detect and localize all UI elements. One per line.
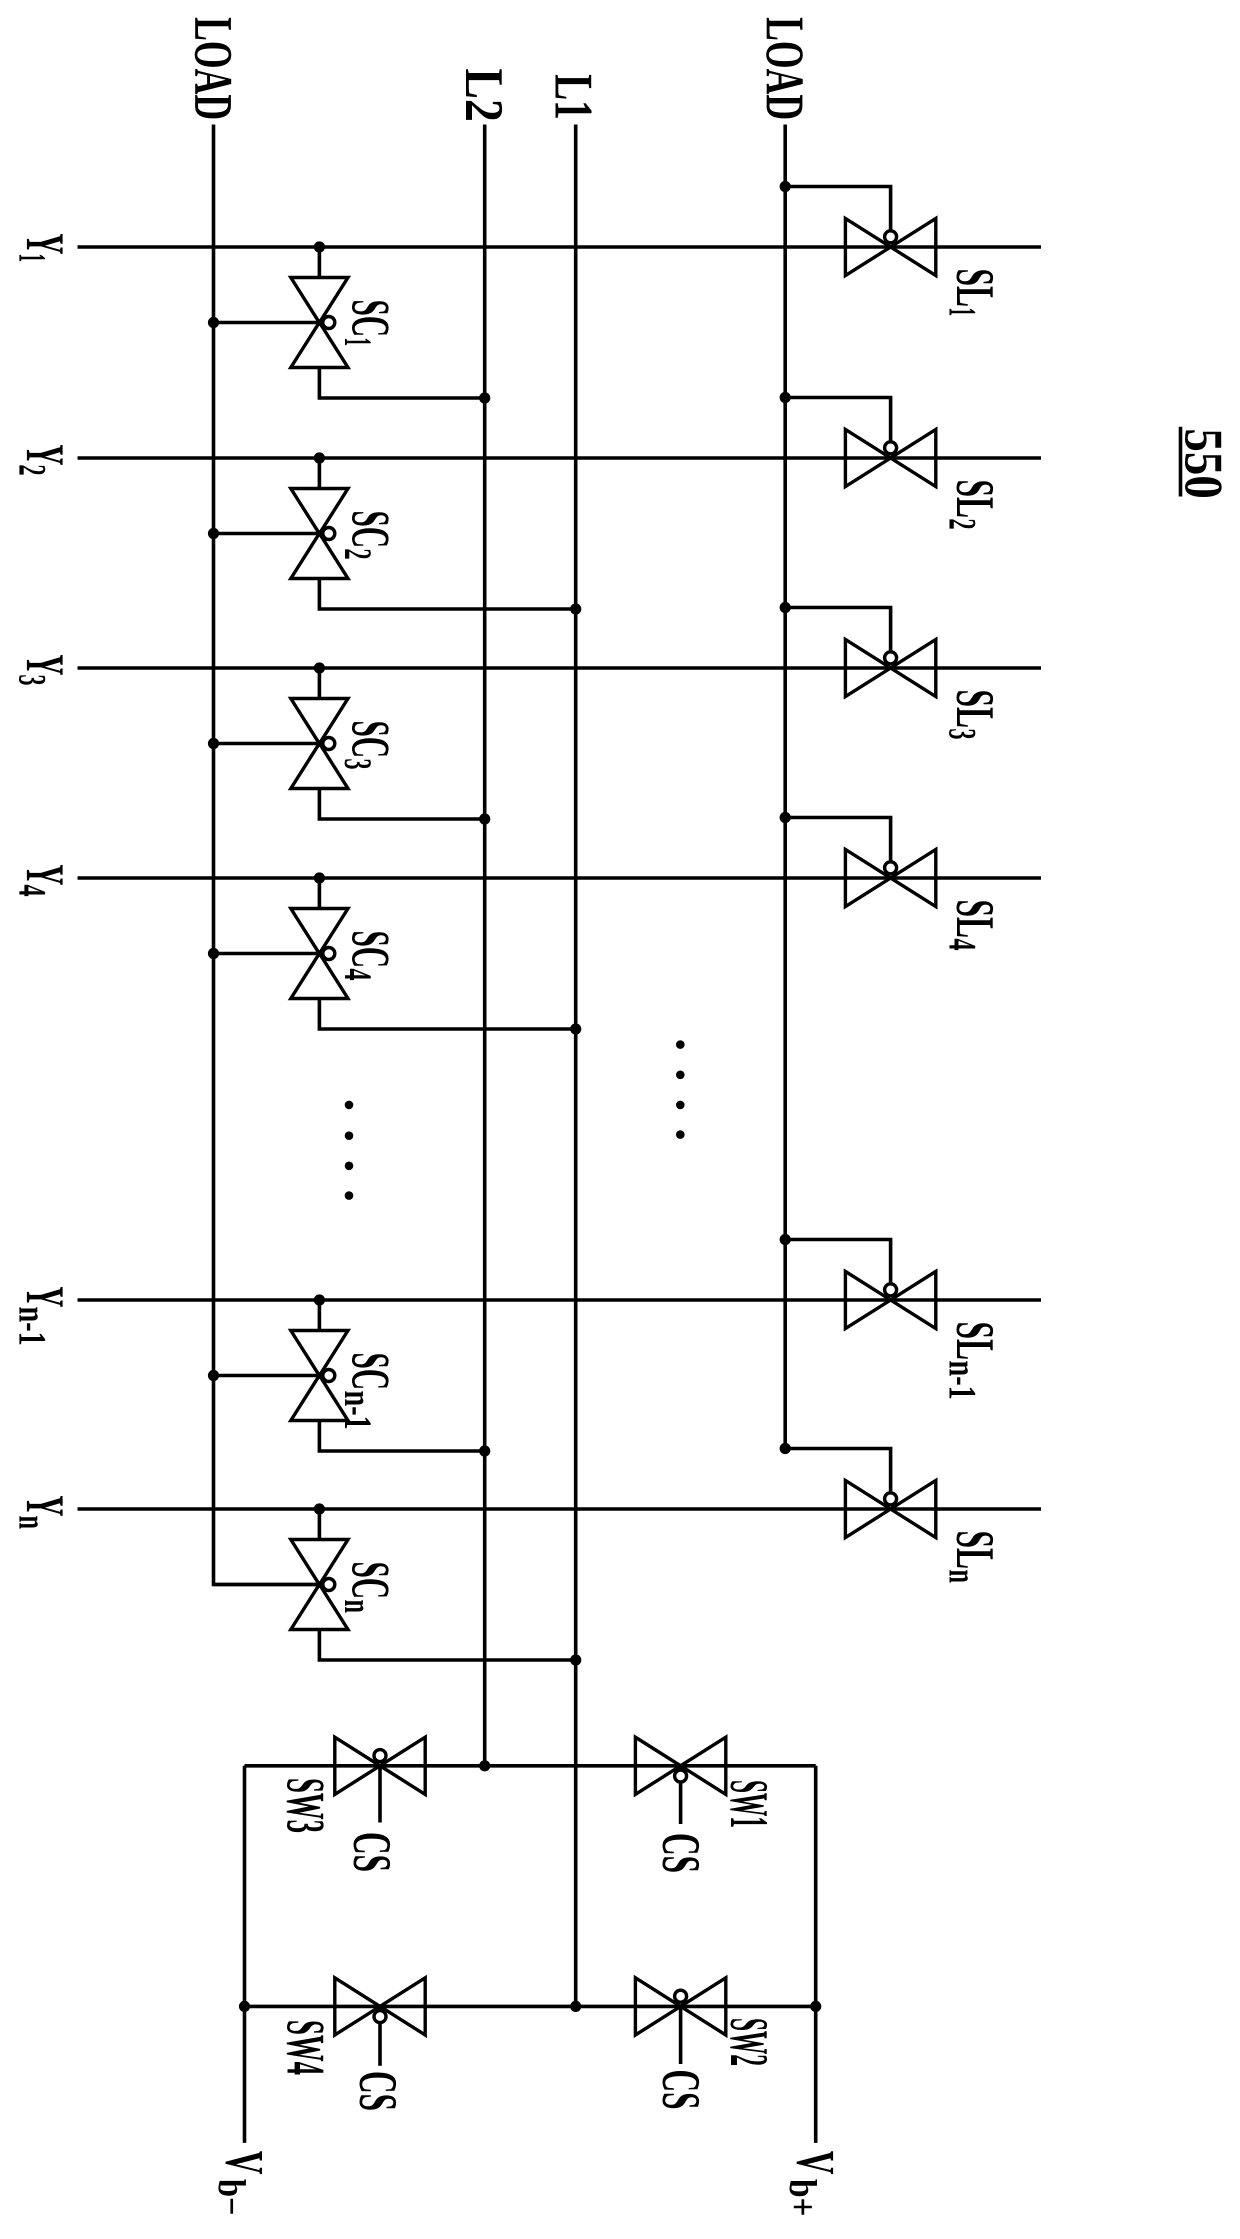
- node LOAD left terminal label: [195, 18, 232, 119]
- wire SCn-1 anode stub: [318, 1300, 322, 1331]
- wire SW3 CS gate stub: [378, 1766, 382, 1823]
- wire SC3 cathode lead to L2: [319, 789, 490, 825]
- wire right branch to Vb+ with junction: [810, 1766, 821, 2143]
- node junction Y1-SC1: [314, 241, 325, 252]
- node SL3 label: [949, 691, 993, 739]
- switch SC3: [291, 699, 348, 789]
- node SW3 CS control label: [354, 1834, 391, 1871]
- node Y3 label: [19, 655, 63, 685]
- wire SC4 gate lead: [214, 952, 320, 956]
- wire SCn gate lead: [214, 1583, 320, 1587]
- node Y2 label: [19, 445, 62, 475]
- wire SW2 CS gate stub: [679, 2006, 683, 2064]
- wire SC1 anode stub: [318, 247, 322, 278]
- node SL4 label: [950, 901, 994, 950]
- node junction LOAD-SC2 gate: [208, 528, 219, 539]
- wire SC2 anode stub: [318, 458, 322, 489]
- node SLn-1 label: [950, 1323, 994, 1398]
- wire SCn anode stub: [318, 1509, 322, 1540]
- wire SW4 CS gate stub: [378, 2006, 382, 2065]
- node SW2 CS control label: [663, 2071, 700, 2108]
- switch SW2: [635, 1978, 725, 2035]
- wire SCn-1 gate lead: [214, 1374, 320, 1378]
- node Yn-1 label: [19, 1287, 62, 1344]
- switch SL1: [845, 218, 935, 275]
- node junction LOAD-SC3 gate: [208, 738, 219, 749]
- wire SW3-SW1 row: [245, 1764, 816, 1768]
- node SC2 label: [345, 512, 389, 559]
- switch SC2: [291, 489, 348, 579]
- node L2 label: [466, 69, 502, 120]
- wire Y4 row line: [78, 876, 1042, 880]
- wire Y2 row line: [78, 456, 1042, 460]
- node junction Yn-1-SCn-1: [314, 1294, 325, 1305]
- node LOAD right terminal label: [766, 18, 803, 119]
- wire Y3 row line: [78, 666, 1042, 670]
- switch SL2: [845, 429, 935, 486]
- switch SC4: [291, 909, 348, 999]
- switch SCn: [291, 1540, 348, 1630]
- node SC3 label: [345, 722, 389, 769]
- wire SW1 CS gate stub: [679, 1766, 683, 1824]
- wire L2 bus: [479, 125, 490, 1772]
- wire SLn-1 gate lead: [780, 1234, 891, 1288]
- wire Y1 row line: [78, 245, 1042, 249]
- wire SC3 gate lead: [214, 742, 320, 746]
- switch SW4: [335, 1978, 425, 2035]
- wire LOAD left bus with corner to SCn gate: [214, 125, 320, 1585]
- wire 550 underline: [1179, 427, 1183, 497]
- node Y1 label: [19, 234, 62, 261]
- node figure number 550: [1185, 430, 1222, 497]
- node SCn-1 label: [345, 1354, 389, 1428]
- node Vb+ terminal label: [790, 2151, 834, 2215]
- switch SLn-1: [845, 1271, 935, 1328]
- switch SW3: [335, 1737, 425, 1794]
- switch SLn: [845, 1480, 935, 1537]
- wire SCn cathode lead to L1: [319, 1630, 581, 1666]
- node L1 label: [556, 75, 592, 118]
- node Vb- terminal label: [218, 2151, 262, 2214]
- wire left branch to Vb- with junction: [239, 1766, 250, 2143]
- node Yn label: [19, 1496, 62, 1529]
- node SC4 label: [345, 932, 389, 980]
- node SW3 label: [287, 1779, 324, 1832]
- wire SL2 gate lead: [780, 392, 891, 446]
- switch SW1: [635, 1737, 725, 1794]
- wire Yn row line: [78, 1507, 1042, 1511]
- wire SC4 cathode lead to L1: [319, 999, 581, 1035]
- wire SL3 gate lead: [780, 602, 891, 656]
- node junction Y2-SC2: [314, 452, 325, 463]
- node SW2 label: [730, 2019, 767, 2065]
- wire SC2 gate lead: [214, 532, 320, 536]
- wire SC1 cathode lead to L2: [319, 368, 490, 404]
- wire L1 bus: [570, 125, 581, 2013]
- node junction Y4-SC4: [314, 872, 325, 883]
- node SW4 CS control label: [360, 2073, 397, 2110]
- node SW1 CS control label: [663, 1835, 700, 1872]
- node junction Y3-SC3: [314, 662, 325, 673]
- node junction LOAD-SCn-1 gate: [208, 1370, 219, 1381]
- wire SL1 gate lead: [780, 181, 891, 235]
- wire LOAD right bus: [783, 125, 787, 1449]
- wire SW4-SW2 row: [245, 2005, 816, 2009]
- wire SLn gate lead: [780, 1443, 891, 1497]
- node SCn label: [345, 1563, 389, 1613]
- node ellipsis left column: [345, 1101, 354, 1200]
- node SW1 label: [730, 1781, 767, 1827]
- node SL2 label: [950, 481, 994, 528]
- node SW4 label: [287, 2021, 324, 2074]
- wire SL4 gate lead: [780, 812, 891, 866]
- node SC1 label: [345, 301, 389, 345]
- switch SL3: [845, 639, 935, 696]
- node Y4 label: [19, 865, 62, 896]
- node junction Yn-SCn: [314, 1503, 325, 1514]
- switch SL4: [845, 849, 935, 906]
- node junction LOAD-SC1 gate: [208, 317, 219, 328]
- wire SC1 gate lead: [214, 321, 320, 325]
- wire SC3 anode stub: [318, 668, 322, 699]
- node junction LOAD-SC4 gate: [208, 948, 219, 959]
- switch SCn-1: [291, 1331, 348, 1421]
- wire SC4 anode stub: [318, 878, 322, 909]
- wire Yn-1 row line: [78, 1298, 1042, 1302]
- wire SCn-1 cathode lead to L2: [319, 1421, 490, 1457]
- switch SC1: [291, 278, 348, 368]
- node ellipsis middle column: [676, 1040, 685, 1139]
- wire SC2 cathode lead to L1: [319, 579, 581, 615]
- node SLn label: [950, 1532, 994, 1582]
- node SL1 label: [950, 270, 994, 315]
